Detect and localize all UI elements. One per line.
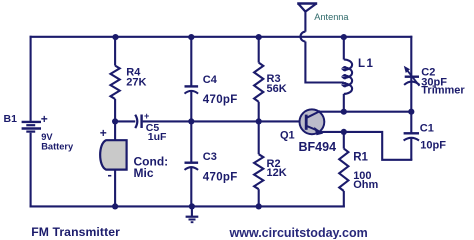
node collector rail / C2-C1 bbox=[408, 109, 414, 115]
svg-text:470pF: 470pF bbox=[203, 94, 238, 106]
svg-text:R1: R1 bbox=[353, 151, 368, 163]
wire R1 top bbox=[343, 132, 345, 149]
wire mic node to mic top bbox=[114, 121, 116, 141]
svg-text:12K: 12K bbox=[267, 167, 287, 179]
svg-text:Mic: Mic bbox=[134, 166, 154, 180]
node top rail / R3 bbox=[256, 34, 262, 40]
wire mid node wire (mic node to C5) bbox=[115, 120, 135, 122]
node ground rail / mic bbox=[112, 203, 118, 209]
resistor R1 100 Ohm bbox=[339, 149, 348, 191]
node mid / mic-R4 bbox=[112, 118, 118, 124]
wire left battery column bottom bbox=[30, 133, 32, 208]
wire R3 column top bbox=[258, 36, 260, 63]
wire collector rail bbox=[320, 111, 413, 113]
capacitor C4 470pF bbox=[185, 85, 199, 87]
svg-text:Trimmer: Trimmer bbox=[421, 85, 465, 97]
wire mic bottom to ground rail bbox=[114, 170, 116, 208]
capacitor C3 column wire top bbox=[190, 121, 192, 162]
svg-text:L1: L1 bbox=[358, 58, 374, 70]
svg-text:27K: 27K bbox=[126, 77, 146, 89]
svg-text:+: + bbox=[41, 112, 48, 126]
wire C1 top bbox=[410, 112, 412, 134]
wire bottom ground rail bbox=[30, 205, 345, 207]
resistor R2 12K bbox=[254, 154, 263, 189]
capacitor C5 1uF (polarized) bbox=[135, 115, 141, 129]
svg-text:10pF: 10pF bbox=[420, 140, 446, 152]
wire antenna mast lower bbox=[305, 42, 343, 83]
svg-text:Ohm: Ohm bbox=[353, 179, 378, 191]
transistor Q1 BF494 bbox=[300, 109, 325, 135]
wire antenna mast upper bbox=[304, 10, 306, 32]
node base / R3-R2 bbox=[256, 118, 262, 124]
battery B1 bbox=[22, 122, 41, 132]
capacitor C4 column wire top bbox=[190, 36, 192, 86]
capacitor C1 10pF bbox=[404, 132, 419, 134]
ground symbol bbox=[186, 206, 199, 222]
wire emitter to R1 node bbox=[320, 131, 344, 133]
wire R4 bottom to mic node bbox=[114, 99, 116, 121]
wire R3 bottom to base node bbox=[258, 102, 260, 122]
wire emitter feedback loop to C1 bottom bbox=[344, 132, 413, 160]
svg-text:+: + bbox=[100, 126, 107, 140]
wire C2 column (top rail corner down to collector rail) bbox=[410, 36, 412, 112]
capacitor C3 470pF bbox=[185, 161, 199, 163]
wire left battery column top bbox=[30, 36, 32, 121]
resistor R3 56K bbox=[254, 63, 263, 102]
wire C3 bottom to ground rail bbox=[190, 166, 192, 207]
node top rail / L1 bbox=[341, 34, 347, 40]
wire R1 bottom to ground rail bbox=[343, 191, 345, 208]
svg-text:C3: C3 bbox=[203, 151, 217, 163]
wire C1 bottom bbox=[410, 137, 412, 160]
resistor R4 bbox=[111, 66, 120, 99]
svg-text:www.circuitstoday.com: www.circuitstoday.com bbox=[229, 226, 368, 239]
svg-text:B1: B1 bbox=[4, 113, 18, 125]
svg-text:C1: C1 bbox=[420, 123, 434, 135]
wire base node to R2 bbox=[258, 121, 260, 154]
svg-text:Battery: Battery bbox=[41, 141, 74, 151]
svg-text:Antenna: Antenna bbox=[314, 12, 349, 22]
svg-text:-: - bbox=[108, 167, 112, 182]
svg-text:Q1: Q1 bbox=[280, 129, 295, 141]
wire C4 bottom to mid wire bbox=[190, 90, 192, 121]
svg-text:470pF: 470pF bbox=[203, 172, 238, 184]
svg-text:56K: 56K bbox=[267, 83, 287, 95]
antenna symbol bbox=[297, 4, 317, 12]
wire L1 bottom to collector rail bbox=[343, 94, 345, 112]
node collector rail / L1 bbox=[341, 109, 347, 115]
node ground rail / C3-gnd bbox=[189, 203, 195, 209]
wire hop over top rail bbox=[301, 32, 306, 42]
node top rail / C4 bbox=[188, 34, 194, 40]
svg-text:+: + bbox=[144, 111, 149, 121]
svg-text:C4: C4 bbox=[203, 74, 218, 86]
wire L1 column top bbox=[343, 37, 345, 60]
wire R4 column top bbox=[114, 36, 116, 66]
svg-text:1uF: 1uF bbox=[148, 131, 167, 143]
node ground rail / R2 bbox=[256, 203, 262, 209]
microphone (Cond: Mic) body bbox=[100, 140, 126, 169]
node top rail / R4 bbox=[112, 34, 118, 40]
wire top supply rail bbox=[30, 36, 413, 38]
wire R2 bottom to ground rail bbox=[258, 189, 260, 207]
svg-text:BF494: BF494 bbox=[299, 140, 337, 154]
svg-text:FM Transmitter: FM Transmitter bbox=[31, 225, 120, 239]
inductor L1 bbox=[344, 60, 352, 94]
wire C5 to base node bbox=[143, 120, 306, 122]
node emitter / R1 bbox=[341, 129, 347, 135]
trimmer capacitor C2 30pF bbox=[404, 66, 420, 86]
node mid / C4-C3 bbox=[188, 118, 194, 124]
